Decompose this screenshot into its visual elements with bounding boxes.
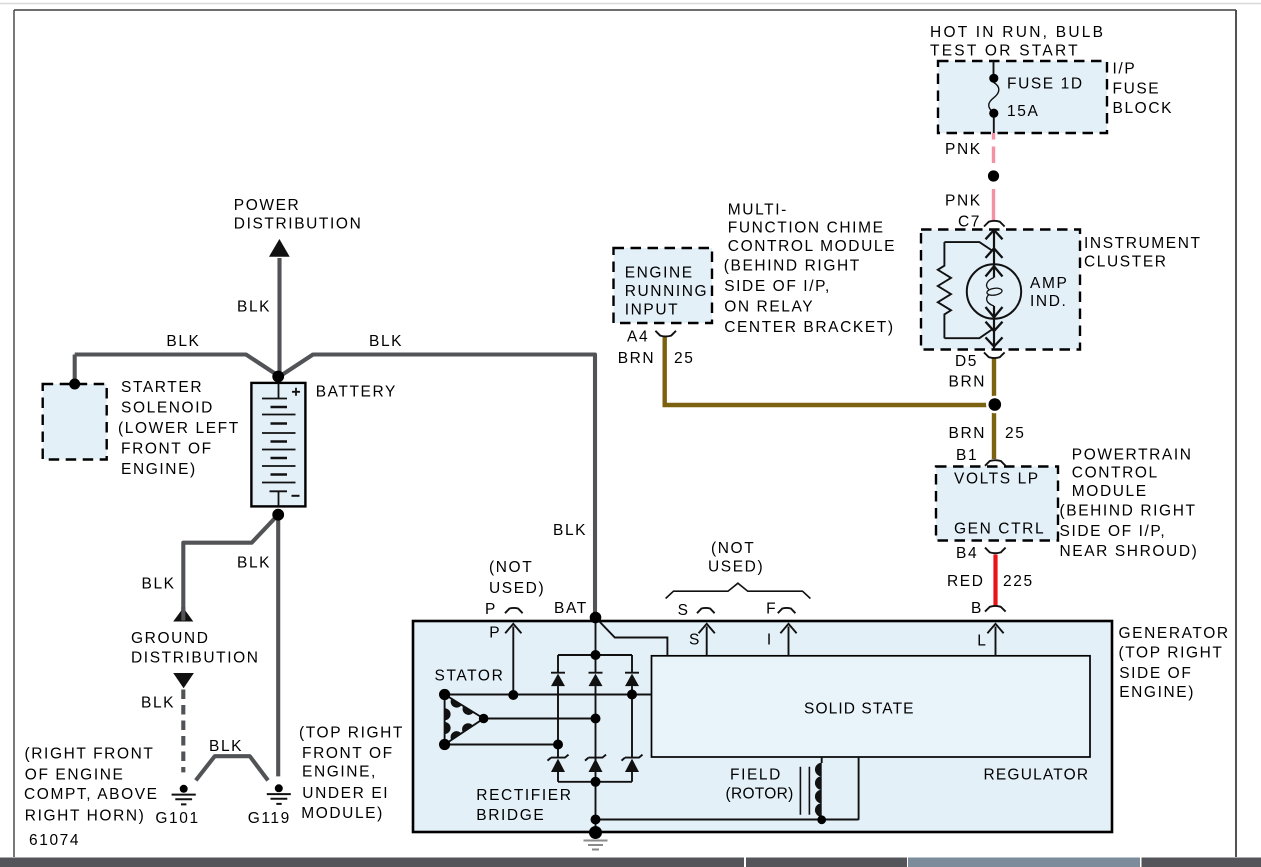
svg-text:BRN: BRN <box>949 373 987 390</box>
svg-text:BATTERY: BATTERY <box>316 383 397 400</box>
svg-text:BLK: BLK <box>237 554 271 571</box>
svg-text:USED): USED) <box>708 558 764 575</box>
svg-text:61074: 61074 <box>29 832 80 849</box>
svg-text:BLK: BLK <box>209 738 243 755</box>
svg-text:GROUND: GROUND <box>131 630 210 647</box>
svg-text:USED): USED) <box>489 580 545 597</box>
svg-text:(BEHIND RIGHT: (BEHIND RIGHT <box>724 258 861 275</box>
svg-text:BRIDGE: BRIDGE <box>476 807 545 824</box>
svg-text:HOT IN RUN, BULB: HOT IN RUN, BULB <box>930 24 1105 41</box>
svg-text:POWERTRAIN: POWERTRAIN <box>1072 446 1193 463</box>
svg-text:STARTER: STARTER <box>121 379 203 396</box>
svg-text:(ROTOR): (ROTOR) <box>726 785 794 802</box>
svg-text:(TOP RIGHT: (TOP RIGHT <box>1119 644 1224 661</box>
svg-text:OF ENGINE: OF ENGINE <box>25 767 125 784</box>
svg-text:FUSE 1D: FUSE 1D <box>1007 75 1084 92</box>
svg-text:ENGINE: ENGINE <box>625 264 694 281</box>
svg-text:L: L <box>977 632 987 649</box>
svg-text:BLK: BLK <box>166 333 200 350</box>
svg-text:B: B <box>971 600 983 617</box>
svg-text:BRN: BRN <box>949 425 987 442</box>
svg-text:BAT: BAT <box>554 600 588 617</box>
svg-text:(RIGHT FRONT: (RIGHT FRONT <box>25 746 155 763</box>
svg-text:INPUT: INPUT <box>625 301 680 318</box>
svg-text:SIDE OF: SIDE OF <box>1119 665 1192 682</box>
svg-text:I: I <box>767 631 773 648</box>
svg-text:(NOT: (NOT <box>489 559 533 576</box>
svg-text:ON RELAY: ON RELAY <box>724 298 814 315</box>
svg-text:PNK: PNK <box>945 141 982 158</box>
svg-text:MODULE: MODULE <box>1072 483 1148 500</box>
svg-text:IND.: IND. <box>1030 293 1067 310</box>
svg-text:G119: G119 <box>248 810 291 827</box>
svg-text:CLUSTER: CLUSTER <box>1084 253 1168 270</box>
svg-text:I/P: I/P <box>1113 60 1137 77</box>
svg-text:(TOP RIGHT: (TOP RIGHT <box>299 725 404 742</box>
svg-text:BLK: BLK <box>141 694 175 711</box>
svg-text:FRONT OF: FRONT OF <box>302 745 394 762</box>
svg-text:REGULATOR: REGULATOR <box>984 766 1090 783</box>
svg-text:RECTIFIER: RECTIFIER <box>476 787 572 804</box>
svg-text:(BEHIND RIGHT: (BEHIND RIGHT <box>1060 502 1197 519</box>
svg-text:G101: G101 <box>155 810 199 827</box>
svg-text:BLK: BLK <box>237 298 271 315</box>
svg-text:D5: D5 <box>955 353 978 370</box>
svg-text:B4: B4 <box>956 545 978 562</box>
svg-text:STATOR: STATOR <box>435 667 505 684</box>
svg-text:RUNNING: RUNNING <box>625 283 709 300</box>
svg-text:SIDE OF I/P,: SIDE OF I/P, <box>1060 523 1167 540</box>
svg-text:SOLENOID: SOLENOID <box>121 399 214 416</box>
svg-text:FUSE: FUSE <box>1113 80 1161 97</box>
svg-text:RIGHT HORN): RIGHT HORN) <box>25 808 146 825</box>
svg-text:BLK: BLK <box>142 575 176 592</box>
svg-text:P: P <box>485 601 497 618</box>
svg-text:ENGINE): ENGINE) <box>121 461 197 478</box>
svg-text:CENTER BRACKET): CENTER BRACKET) <box>724 319 894 336</box>
svg-text:225: 225 <box>1003 573 1034 590</box>
svg-text:25: 25 <box>674 350 694 367</box>
svg-text:A4: A4 <box>627 328 649 345</box>
svg-text:NEAR SHROUD): NEAR SHROUD) <box>1060 543 1199 560</box>
svg-text:BRN: BRN <box>618 350 656 367</box>
svg-text:PNK: PNK <box>945 192 982 209</box>
svg-text:CONTROL: CONTROL <box>1072 465 1159 482</box>
svg-text:(LOWER LEFT: (LOWER LEFT <box>118 420 240 437</box>
svg-text:VOLTS LP: VOLTS LP <box>954 470 1040 487</box>
svg-text:(NOT: (NOT <box>711 540 755 557</box>
svg-text:DISTRIBUTION: DISTRIBUTION <box>131 650 260 667</box>
svg-text:FUNCTION CHIME: FUNCTION CHIME <box>728 220 885 237</box>
svg-text:S: S <box>689 631 701 648</box>
svg-text:FRONT OF: FRONT OF <box>121 440 213 457</box>
svg-text:MULTI-: MULTI- <box>728 201 788 218</box>
svg-text:25: 25 <box>1005 425 1025 442</box>
svg-text:DISTRIBUTION: DISTRIBUTION <box>234 216 363 233</box>
svg-text:SOLID STATE: SOLID STATE <box>804 700 915 717</box>
svg-text:15A: 15A <box>1007 103 1039 120</box>
svg-text:RED: RED <box>947 573 985 590</box>
svg-text:BLOCK: BLOCK <box>1113 100 1174 117</box>
svg-text:S: S <box>678 602 690 619</box>
svg-text:FIELD: FIELD <box>730 766 782 783</box>
svg-text:F: F <box>766 600 777 617</box>
svg-text:POWER: POWER <box>234 197 301 214</box>
svg-text:AMP: AMP <box>1030 275 1068 292</box>
svg-text:GEN CTRL: GEN CTRL <box>954 520 1045 537</box>
svg-text:ENGINE,: ENGINE, <box>302 763 377 780</box>
svg-text:BLK: BLK <box>369 333 403 350</box>
svg-text:P: P <box>489 624 501 641</box>
svg-text:ENGINE): ENGINE) <box>1119 684 1195 701</box>
svg-text:B1: B1 <box>956 447 978 464</box>
svg-text:BLK: BLK <box>553 522 587 539</box>
svg-text:UNDER EI: UNDER EI <box>302 785 389 802</box>
svg-text:INSTRUMENT: INSTRUMENT <box>1084 235 1202 252</box>
svg-text:MODULE): MODULE) <box>301 805 384 822</box>
svg-text:GENERATOR: GENERATOR <box>1119 625 1230 642</box>
svg-text:CONTROL MODULE: CONTROL MODULE <box>728 238 896 255</box>
svg-text:TEST OR START: TEST OR START <box>930 42 1080 59</box>
svg-text:SIDE OF I/P,: SIDE OF I/P, <box>724 278 831 295</box>
svg-text:COMPT, ABOVE: COMPT, ABOVE <box>24 786 159 803</box>
svg-text:C7: C7 <box>958 213 981 230</box>
